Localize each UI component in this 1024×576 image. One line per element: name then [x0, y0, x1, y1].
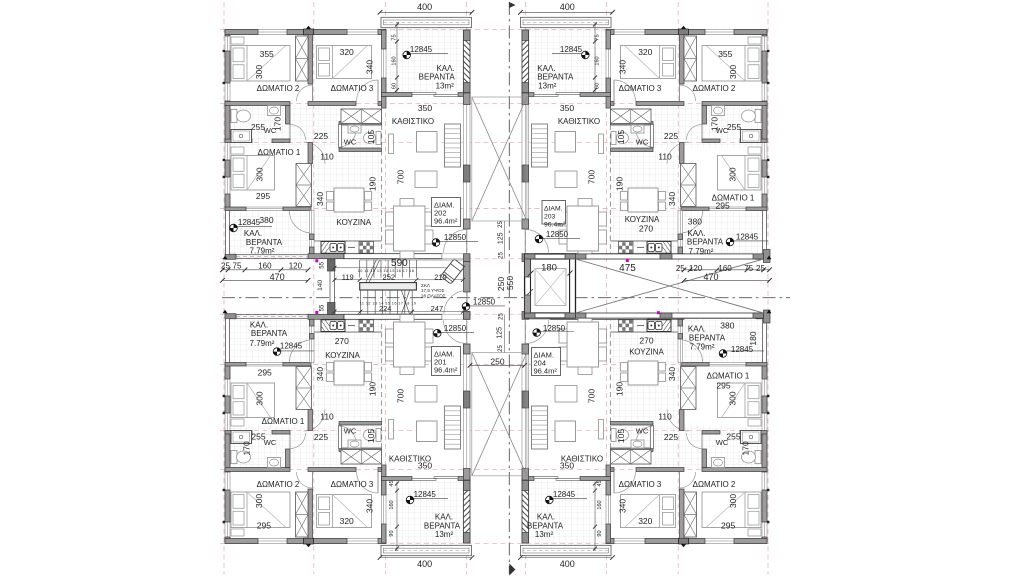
veranda 13m2 tile floor	[529, 28, 607, 93]
veranda 13m2 tile floor	[529, 481, 607, 546]
bedroom3-veranda wall windows	[606, 477, 611, 543]
svg-text:12845: 12845	[410, 45, 433, 54]
svg-text:25: 25	[498, 221, 504, 228]
sink bowl	[656, 244, 663, 252]
wc2 basin	[348, 125, 361, 133]
left outer wall segment	[762, 432, 767, 473]
svg-text:160: 160	[389, 500, 395, 509]
wc2 west wall	[651, 426, 654, 449]
svg-text:ΚΑΛ.: ΚΑΛ.	[435, 513, 453, 522]
kitchen-veranda wall segment	[310, 234, 315, 240]
svg-text:12845: 12845	[280, 342, 303, 351]
apartment label box	[542, 201, 566, 225]
svg-text:340: 340	[618, 499, 628, 513]
svg-text:120: 120	[289, 261, 303, 270]
veranda 13m2 tile floor	[386, 481, 464, 546]
bedroom2 door arc	[297, 85, 313, 101]
window jamb tick	[767, 50, 769, 52]
stairwell column	[328, 303, 336, 315]
kitchen chair	[659, 202, 666, 211]
kitchen chair	[327, 373, 334, 382]
band wall kitchen part	[308, 254, 344, 259]
svg-text:ΚΑΘΙΣΤΙΚΟ: ΚΑΘΙΣΤΙΚΟ	[558, 117, 600, 126]
svg-text:590: 590	[391, 258, 408, 269]
svg-text:700: 700	[587, 170, 597, 184]
level benchmark	[546, 496, 554, 504]
bedroom1-veranda wall segment	[746, 207, 767, 211]
kitchen chair	[621, 373, 628, 382]
dining table	[567, 322, 599, 367]
svg-text:ΒΕΡΑΝΤΑ: ΒΕΡΑΝΤΑ	[419, 73, 456, 82]
hatched wall column cap bottom	[464, 480, 471, 491]
window jamb tick	[223, 395, 225, 397]
bedroom3-veranda wall segment	[606, 477, 611, 495]
svg-text:25: 25	[221, 261, 230, 270]
bedroom2 door leaf	[312, 472, 314, 489]
svg-text:255: 255	[251, 432, 265, 442]
wardrobe bedroom2	[684, 492, 697, 537]
living west wall stub	[606, 465, 611, 477]
svg-text:225: 225	[314, 432, 328, 442]
section flag top	[509, 2, 515, 12]
magenta survey dot	[657, 311, 660, 314]
left outer wall segment	[762, 490, 767, 522]
wc1-bedroom1 wall segment	[225, 139, 252, 143]
svg-text:355: 355	[260, 49, 274, 59]
svg-text:WC: WC	[344, 138, 357, 147]
small veranda corner cap	[756, 254, 767, 259]
band wall kitchen part	[648, 254, 684, 259]
top outer wall segment	[225, 30, 258, 35]
column axis triangle	[681, 544, 686, 547]
east corridor wall block	[576, 313, 587, 318]
magenta survey dot	[626, 259, 629, 262]
level benchmark	[432, 239, 440, 247]
bottom-right apartment 204 geometry	[521, 312, 770, 556]
wc1-bedroom1 wall segment	[740, 431, 767, 435]
svg-text:160: 160	[718, 264, 732, 273]
dining chair	[425, 230, 433, 244]
svg-text:13m²: 13m²	[535, 530, 554, 539]
svg-text:105: 105	[366, 130, 376, 144]
small veranda parapet	[684, 255, 756, 259]
east corridor wall block	[753, 313, 764, 318]
veranda door arc	[681, 340, 703, 362]
svg-text:300: 300	[728, 494, 738, 508]
band wall outlined part	[550, 254, 648, 259]
svg-text:110: 110	[320, 152, 334, 162]
hall wall segment	[636, 468, 684, 472]
tv unit	[599, 420, 604, 440]
top outer wall segment	[225, 539, 258, 544]
kitchen-veranda wall segment	[678, 319, 683, 326]
svg-text:350: 350	[418, 103, 432, 113]
east corridor wall block	[753, 254, 764, 259]
wc1 basin	[268, 106, 281, 116]
wardrobe hall	[341, 109, 382, 124]
veranda door arc	[290, 340, 312, 362]
svg-text:340: 340	[618, 60, 628, 74]
passage door arc	[304, 410, 326, 432]
living east wall segment	[522, 93, 529, 105]
dining chair	[559, 230, 567, 244]
elevator corner block	[565, 313, 576, 318]
hatched wall column cap bottom	[464, 83, 471, 94]
level benchmark	[403, 51, 411, 59]
nightstand	[231, 147, 244, 154]
dining chair	[425, 347, 433, 361]
sink cabinet	[321, 320, 345, 332]
svg-text:ΔΩΜΑΤΙΟ 1: ΔΩΜΑΤΙΟ 1	[262, 417, 305, 426]
svg-text:11 12 13 14 15 16 17 18 19: 11 12 13 14 15 16 17 18 19	[360, 302, 417, 306]
svg-text:55: 55	[319, 304, 325, 311]
entry door arc	[525, 320, 548, 343]
wc1 east wall	[286, 106, 291, 125]
wc1 door arc	[290, 125, 306, 141]
svg-text:WC: WC	[264, 438, 277, 447]
svg-text:400: 400	[560, 559, 575, 569]
living east wall band	[464, 93, 471, 229]
svg-text:75: 75	[595, 34, 601, 40]
svg-text:25: 25	[498, 345, 504, 352]
hatched wall column cap top	[464, 533, 471, 544]
hall wall segment	[702, 468, 767, 472]
hall wall segment	[378, 102, 382, 106]
nightstand	[748, 419, 761, 426]
svg-text:13m²: 13m²	[436, 82, 455, 91]
passage door leaf	[304, 141, 326, 143]
svg-text:ΔΩΜΑΤΙΟ 3: ΔΩΜΑΤΙΟ 3	[619, 84, 662, 93]
stair door leaf	[466, 291, 468, 314]
kitchen chair	[659, 192, 666, 201]
hall wall segment	[308, 102, 356, 106]
dimension lines	[380, 11, 472, 13]
svg-text:295: 295	[721, 521, 735, 531]
svg-text:250: 250	[490, 357, 504, 367]
tv unit	[599, 134, 604, 154]
kitchen tile floor	[611, 152, 679, 254]
wc1 toilet	[231, 110, 237, 123]
hatched lightwell wall	[464, 480, 471, 543]
entry threshold	[442, 314, 464, 319]
shower	[231, 431, 252, 444]
wc1-bedroom1 wall segment	[272, 431, 290, 435]
dining chair	[400, 367, 414, 375]
svg-text:ΔΩΜΑΤΙΟ 2: ΔΩΜΑΤΙΟ 2	[693, 84, 736, 93]
wardrobe bedroom1	[296, 367, 312, 410]
bed bedroom3	[621, 495, 676, 528]
kitchen counter line	[611, 331, 679, 333]
window jamb tick	[223, 412, 225, 414]
svg-text:45: 45	[597, 480, 603, 486]
stair door arc	[444, 291, 467, 314]
top outer wall segment	[645, 539, 679, 544]
left outer wall segment	[762, 194, 767, 208]
svg-text:105: 105	[616, 429, 626, 443]
wc2 door arc	[636, 426, 654, 444]
kitchen-veranda wall segment	[678, 247, 683, 254]
wc1-bedroom1 wall segment	[702, 139, 720, 143]
left outer wall segment	[762, 396, 767, 413]
wc2 toilet	[376, 429, 381, 442]
dining chair	[400, 315, 414, 323]
dining chair	[559, 329, 567, 343]
svg-text:270: 270	[335, 336, 349, 346]
wc1 door leaf	[701, 433, 703, 449]
left outer wall windows	[225, 366, 230, 544]
veranda door arc	[681, 211, 703, 233]
elevator corner block	[565, 254, 576, 259]
beam dashed line	[381, 108, 383, 254]
dining table	[394, 322, 426, 367]
stair dim line 590	[335, 267, 464, 269]
kitchen counter line	[314, 331, 382, 333]
veranda 7.79m2 tile floor	[230, 319, 310, 363]
svg-text:25: 25	[499, 252, 505, 259]
dining chair	[599, 230, 607, 244]
wc2 toilet	[376, 132, 381, 145]
hall wall segment	[702, 102, 767, 106]
elevator wall block	[525, 259, 531, 277]
svg-text:190: 190	[615, 382, 625, 396]
hatched wall column cap bottom	[522, 83, 529, 94]
bedroom3-veranda wall segment	[382, 524, 387, 543]
window jamb tick	[767, 412, 769, 414]
wc2 basin	[631, 125, 644, 133]
wardrobe hall	[611, 450, 652, 465]
svg-text:180: 180	[541, 262, 557, 273]
section line horizontal	[222, 297, 790, 299]
svg-text:12845: 12845	[736, 233, 759, 242]
svg-text:250: 250	[496, 277, 506, 291]
counter dash	[348, 247, 355, 249]
hall wall segment	[378, 468, 382, 472]
svg-text:380: 380	[259, 215, 273, 225]
bedroom2 door arc	[680, 472, 696, 488]
svg-text:ΒΕΡΑΝΤΑ: ΒΕΡΑΝΤΑ	[537, 73, 574, 82]
sliding door leaf	[412, 479, 436, 481]
hall wall segment	[225, 102, 290, 106]
elevator corner block	[525, 313, 535, 318]
svg-text:190: 190	[367, 177, 377, 191]
bedroom3 door leaf	[613, 80, 615, 102]
window jamb tick	[767, 395, 769, 397]
small veranda parapet	[236, 315, 308, 319]
svg-text:400: 400	[560, 2, 575, 12]
svg-text:96.4m²: 96.4m²	[434, 217, 458, 226]
left outer wall segment	[225, 101, 230, 142]
lightwell box bottom	[472, 353, 527, 476]
level benchmark	[406, 496, 414, 504]
stair landing bar	[360, 283, 417, 290]
wardrobe bedroom1	[681, 164, 697, 207]
lightwell box top	[472, 97, 527, 221]
svg-text:7.79m²: 7.79m²	[689, 247, 714, 256]
passage door leaf	[667, 430, 689, 432]
svg-text:ΒΕΡΑΝΤΑ: ΒΕΡΑΝΤΑ	[689, 334, 726, 343]
top outer wall segment	[287, 539, 304, 544]
svg-text:475: 475	[619, 263, 636, 274]
top outer wall segment	[689, 30, 706, 35]
column axis triangle	[306, 26, 311, 29]
shower	[741, 130, 762, 143]
small veranda parapet	[684, 315, 756, 319]
svg-text:125: 125	[496, 327, 503, 339]
dining chair	[578, 367, 592, 375]
kitchen chair	[365, 373, 372, 382]
coffee table	[417, 421, 438, 442]
sofa	[532, 406, 548, 449]
sink bowl	[648, 322, 655, 330]
top outer wall segment	[734, 30, 767, 35]
svg-text:25: 25	[499, 313, 505, 320]
svg-text:ΚΑΛ.: ΚΑΛ.	[537, 513, 555, 522]
top outer wall segment	[314, 30, 348, 35]
bedroom1-veranda wall segment	[746, 363, 767, 367]
band wall corridor stub	[464, 254, 471, 262]
kitchen-veranda wall segment	[310, 319, 315, 326]
passage door arc	[667, 410, 689, 432]
bed bedroom1	[718, 156, 762, 191]
svg-text:300: 300	[728, 391, 738, 405]
svg-text:252: 252	[383, 272, 396, 281]
svg-text:ΚΟΥΖΙΝΑ: ΚΟΥΖΙΝΑ	[325, 351, 360, 360]
wc2 top wall	[611, 448, 654, 452]
level benchmark	[273, 348, 281, 356]
entry door arc	[444, 230, 467, 253]
living-veranda wall segment	[522, 477, 534, 481]
window jamb tick	[223, 176, 225, 178]
svg-text:12850: 12850	[546, 230, 569, 239]
sink cabinet	[647, 242, 671, 254]
sink bowl	[656, 322, 663, 330]
svg-text:190: 190	[615, 177, 625, 191]
living west wall stub	[382, 97, 387, 109]
kitchen chair	[621, 363, 628, 372]
svg-text:12845: 12845	[238, 218, 261, 227]
window jamb tick	[767, 521, 769, 523]
kitchen counter line	[314, 240, 382, 242]
living east wall segment	[522, 344, 529, 354]
wc1 door arc	[290, 433, 306, 449]
hall wall segment	[611, 468, 615, 472]
wc2 top wall	[611, 122, 654, 126]
svg-text:170: 170	[740, 441, 750, 455]
wc2 west wall	[339, 125, 342, 148]
bed bedroom1	[231, 383, 275, 418]
coffee table	[555, 132, 576, 153]
apartment label box	[532, 348, 561, 376]
svg-text:300: 300	[728, 65, 738, 79]
hob	[619, 320, 634, 332]
bedroom1-veranda wall segment	[681, 207, 709, 211]
bedroom3-veranda wall segment	[606, 524, 611, 543]
svg-text:90: 90	[597, 530, 603, 536]
nightstand	[231, 529, 244, 536]
svg-text:12850: 12850	[543, 324, 566, 333]
top outer wall windows	[606, 539, 767, 544]
living-veranda wall segment	[382, 477, 413, 481]
top outer wall segment	[645, 30, 679, 35]
svg-text:12845: 12845	[414, 490, 437, 499]
kitchen chair	[659, 373, 666, 382]
top outer wall segment	[378, 539, 386, 544]
bed bedroom2	[231, 46, 290, 82]
wc corridor tile floor	[230, 425, 382, 468]
sink bowl	[338, 322, 345, 330]
veranda parapet	[521, 545, 612, 555]
dining chair	[578, 199, 592, 207]
east corridor wall block	[660, 313, 672, 318]
sliding door leaf	[556, 93, 580, 95]
wardrobe hall	[341, 450, 382, 465]
svg-text:ΔΙΑΜ.: ΔΙΑΜ.	[544, 206, 563, 213]
svg-text:110: 110	[320, 412, 334, 422]
lightwell cross bottom	[472, 353, 527, 476]
bed bedroom3	[317, 46, 372, 79]
bedroom divider wall	[308, 489, 313, 539]
wc2 basin	[348, 440, 361, 448]
svg-text:25: 25	[756, 264, 765, 273]
left outer wall segment	[762, 160, 767, 177]
svg-text:219: 219	[434, 272, 447, 281]
svg-text:25: 25	[676, 264, 685, 273]
kitchen chair	[621, 202, 628, 211]
wc1 door leaf	[289, 125, 291, 141]
svg-text:190: 190	[367, 382, 377, 396]
kitchen table	[334, 361, 364, 385]
kitchen table	[334, 188, 364, 212]
wardrobe bedroom2	[684, 36, 697, 81]
left outer wall segment	[225, 366, 230, 380]
svg-text:12845: 12845	[560, 45, 583, 54]
bed bedroom2	[702, 46, 761, 82]
elevator wall block	[525, 295, 531, 313]
living-veranda wall segment	[458, 93, 470, 97]
elevator dim ticks	[529, 271, 573, 276]
window jamb tick	[223, 82, 225, 84]
wc2 bottom wall	[611, 422, 654, 426]
bottom-left apartment 201 geometry	[223, 312, 472, 556]
right wall block	[764, 250, 771, 263]
band wall corridor stub	[464, 312, 471, 320]
svg-text:300: 300	[728, 167, 738, 181]
passage door arc	[304, 142, 326, 164]
wc1 basin	[712, 458, 725, 468]
left outer wall segment	[762, 537, 767, 543]
wc corridor tile floor	[230, 106, 382, 149]
svg-text:WC: WC	[636, 138, 649, 147]
wc2 door arc	[339, 129, 357, 147]
counter dash	[348, 325, 355, 327]
svg-text:ΒΕΡΑΝΤΑ: ΒΕΡΑΝΤΑ	[251, 329, 288, 338]
entry threshold	[529, 314, 551, 319]
small veranda left parapet	[763, 319, 767, 366]
magenta survey dot	[315, 311, 318, 314]
top outer wall segment	[734, 539, 767, 544]
svg-text:295: 295	[716, 201, 730, 211]
kitchen-veranda wall segment	[678, 334, 683, 340]
veranda parapet	[381, 545, 472, 555]
kitchen chair	[365, 363, 372, 372]
kitchen-veranda wall segment	[310, 247, 315, 254]
svg-text:ΚΟΥΖΙΝΑ: ΚΟΥΖΙΝΑ	[629, 348, 664, 357]
living east wall band	[464, 344, 471, 480]
top outer wall segment	[606, 30, 614, 35]
svg-text:255: 255	[251, 122, 265, 132]
sliding door leaf	[434, 477, 458, 479]
bedroom2 door leaf	[679, 85, 681, 102]
